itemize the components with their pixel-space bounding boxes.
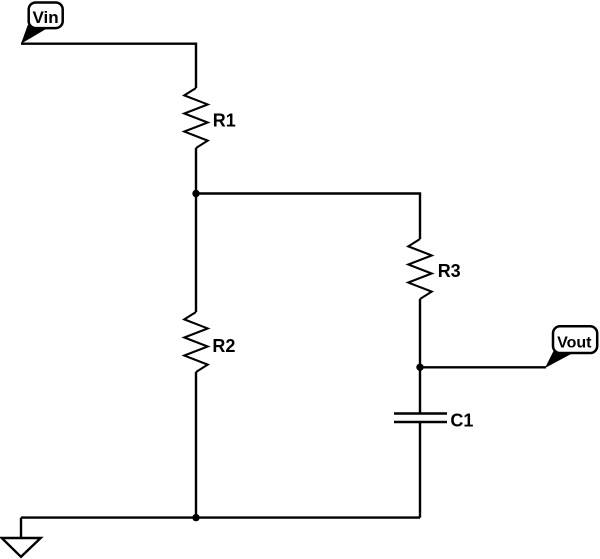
ground: [2, 518, 41, 557]
wire R2 bottom to node C: [195, 372, 197, 518]
wire R1 bottom to node A: [195, 148, 197, 194]
node A junction dot: [192, 190, 199, 197]
wire node B down to C1: [419, 367, 421, 413]
wire bottom rail: [21, 516, 420, 518]
wire node B to Vout tail: [420, 366, 546, 368]
net label Vin: [21, 3, 63, 44]
resistor R2: [184, 312, 235, 372]
capacitor C1: [394, 411, 473, 431]
svg-text:Vin: Vin: [33, 8, 59, 27]
wire node A right and down to R3: [196, 194, 420, 240]
svg-text:R2: R2: [212, 336, 235, 356]
wire C1 bottom to bottom rail: [419, 422, 421, 518]
wire R3 bottom to node B: [419, 299, 421, 367]
resistor R1: [184, 88, 236, 148]
svg-text:C1: C1: [450, 411, 473, 431]
wire top from Vin to corner then down to R1: [21, 44, 196, 88]
net label Vout: [545, 326, 597, 368]
svg-text:R3: R3: [438, 261, 461, 281]
svg-text:R1: R1: [213, 110, 236, 130]
svg-text:Vout: Vout: [557, 334, 592, 351]
wire node A down to R2: [195, 194, 197, 313]
node C junction dot: [192, 514, 199, 521]
resistor R3: [408, 239, 460, 299]
node B junction dot: [416, 364, 423, 371]
